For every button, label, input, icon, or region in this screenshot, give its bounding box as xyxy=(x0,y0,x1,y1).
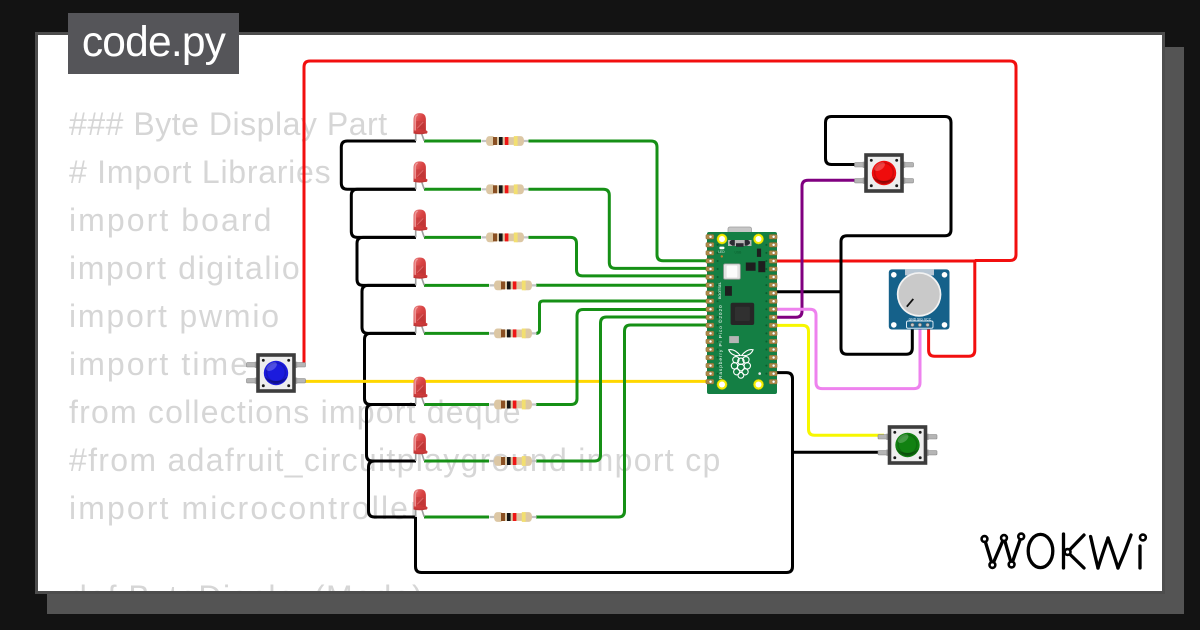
svg-text:Raspberry Pi Pico ©2020: Raspberry Pi Pico ©2020 xyxy=(717,304,724,379)
resistor R5 xyxy=(490,329,537,339)
svg-text:VCC: VCC xyxy=(924,318,932,322)
wire green LED5 anode to R5 xyxy=(424,332,489,335)
rotary encoder ENC1 xyxy=(889,269,950,329)
LED1 legs xyxy=(416,131,425,517)
pushbutton red SW2 xyxy=(855,155,914,191)
wire red 3V3: pico 3V3 pin to encoder VCC xyxy=(770,261,975,356)
wire black GND branch to pico pin xyxy=(770,290,841,293)
resistor R4 xyxy=(490,281,537,291)
resistor R3 xyxy=(482,233,529,243)
wire green LED1 anode to R1 xyxy=(424,140,481,143)
wire green R7 to pico GP7 xyxy=(536,317,709,461)
pushbutton green SW3 xyxy=(878,427,937,463)
LED D2 xyxy=(414,161,428,182)
LED D6 xyxy=(414,377,428,398)
code text background xyxy=(69,106,388,142)
wire green LED3 anode to R3 xyxy=(424,236,481,239)
wire yellow: pico to green button xyxy=(770,325,884,435)
LED D5 xyxy=(414,306,428,327)
wire black GND: LED8 to pico GND pin xyxy=(416,373,793,573)
wire green R5 to pico GP5 xyxy=(536,301,709,333)
wire red 3V3 loop: blue button to top to right side xyxy=(304,61,1016,366)
resistor R6 xyxy=(490,400,537,410)
wire black cathode bus LED7-LED8 xyxy=(369,461,417,517)
resistor R1 xyxy=(482,136,529,146)
svg-text:BOOTSEL: BOOTSEL xyxy=(718,282,722,299)
wire green LED7 anode to R7 xyxy=(424,460,489,463)
wire black GND branch to green button xyxy=(793,451,885,454)
pushbutton blue SW1 xyxy=(247,355,306,391)
wire black cathode bus LED5-LED6 xyxy=(365,333,417,404)
wire black cathode bus LED6-LED7 xyxy=(367,405,417,462)
wire green LED8 anode to R8 xyxy=(424,516,489,519)
svg-text:USB: USB xyxy=(735,251,743,255)
resistor R7 xyxy=(490,456,537,466)
wire green R2 to pico GP1 xyxy=(529,189,710,268)
LED D1 xyxy=(414,113,428,134)
wire green R4 to pico GP3 xyxy=(536,284,709,287)
resistor R2 xyxy=(482,184,529,194)
wire pink: pico to encoder SIG xyxy=(770,309,920,388)
wokwi logo xyxy=(982,534,1146,568)
raspberry pi pico U1 xyxy=(706,227,777,394)
wire green R6 to pico GP6 xyxy=(536,310,709,405)
wire green R3 to pico GP2 xyxy=(529,237,710,276)
svg-text:LED: LED xyxy=(718,250,725,254)
code.py tab xyxy=(68,13,239,74)
svg-text:GND: GND xyxy=(909,318,917,322)
wire green LED4 anode to R4 xyxy=(424,284,489,287)
wire black GND: red button to pico and encoder GND xyxy=(826,117,952,355)
wire purple: red button to pico xyxy=(770,180,858,317)
wire gold: blue button to pico xyxy=(304,380,714,383)
LED D8 xyxy=(414,489,428,510)
resistor R8 xyxy=(490,512,537,522)
wire black cathode bus LED3-LED4 xyxy=(357,237,416,285)
wire green R1 to pico GP0 xyxy=(529,141,710,261)
wire black cathode bus LED4-LED5 xyxy=(362,285,416,333)
wire black cathode bus LED2-LED3 xyxy=(351,189,416,237)
svg-text:SIG: SIG xyxy=(917,318,923,322)
wire green LED2 anode to R2 xyxy=(424,188,481,191)
LED D4 xyxy=(414,258,428,279)
LED D3 xyxy=(414,210,428,231)
wire green R8 to pico GP8 xyxy=(536,325,709,517)
LED D7 xyxy=(414,433,428,454)
wire green LED6 anode to R6 xyxy=(424,403,489,406)
wire black cathode bus LED1-LED2 xyxy=(341,141,416,189)
